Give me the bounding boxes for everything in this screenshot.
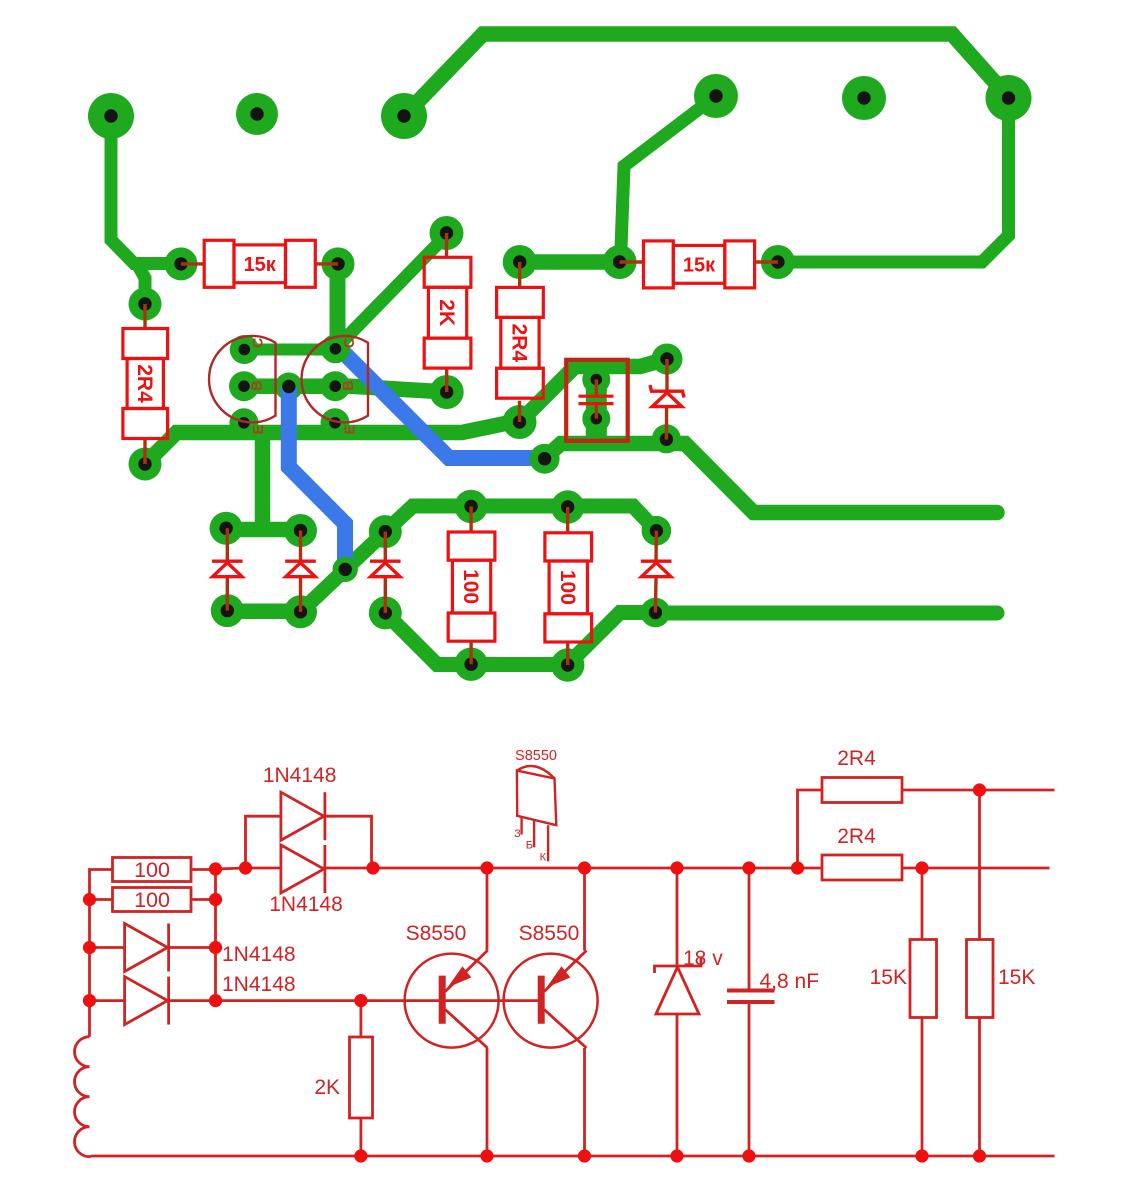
- resistor R10 2K box: [350, 1037, 373, 1118]
- wire Q1 collector: [486, 868, 489, 951]
- wire from 2R4b bottom pad diagonal up to zener top trace: [520, 359, 668, 422]
- pad E: [694, 74, 738, 118]
- pad 2R4b bottom: [503, 405, 537, 439]
- lead 2R4b top: [518, 262, 521, 287]
- wire 2K bottom: [359, 1118, 362, 1156]
- lead diode D3 bottom: [384, 577, 387, 613]
- lead 2K bottom: [445, 368, 448, 392]
- label 1N4148 below pair: [269, 893, 343, 916]
- wire top bus from pad C over to pad D: [404, 34, 1008, 116]
- label 4,8 nF: [760, 970, 820, 993]
- lead node F to 15k R2: [620, 260, 644, 263]
- lead diode D1 bottom: [226, 577, 229, 611]
- wire from diode D4 bottom pad to right edge: [655, 606, 997, 621]
- pad Q1 base: [229, 371, 259, 401]
- svg-text:15K: 15K: [870, 966, 907, 989]
- inductor L1 coil: [75, 1037, 91, 1157]
- pad Q1 collector: [230, 335, 259, 364]
- lead diode D4 bottom: [654, 578, 658, 613]
- wire Q2 collector: [583, 868, 586, 951]
- wire diode D1 D2 bottom pads row: [227, 603, 300, 619]
- svg-text:С: С: [251, 337, 267, 348]
- letter B of Q2: [341, 380, 357, 390]
- pad Q2 emitter: [321, 408, 350, 437]
- resistor R5 2R4: [497, 287, 544, 398]
- wire bottom bus net GND: [91, 1155, 1055, 1158]
- diode D7 1N4148: [125, 977, 169, 1025]
- letter E of Q2: [343, 424, 359, 434]
- svg-text:4,8 nF: 4,8 nF: [760, 970, 820, 993]
- label S8550 Q1: [406, 922, 467, 945]
- svg-text:100: 100: [134, 888, 170, 912]
- pad diode D2 bottom: [284, 595, 317, 628]
- wire from pad D down to 15k resistor R2 right pad: [778, 98, 1009, 262]
- svg-text:В: В: [341, 380, 357, 390]
- wire capacitor vertical pour: [586, 366, 607, 446]
- pad B isolated: [236, 93, 278, 135]
- wire collector line C of transistors Q1 Q2: [244, 344, 340, 356]
- wire from blue-wire end node up to diode D3 top pad: [345, 532, 385, 570]
- svg-text:2R4: 2R4: [837, 747, 876, 770]
- svg-text:2R4: 2R4: [507, 324, 530, 363]
- svg-text:100: 100: [134, 858, 170, 882]
- svg-text:2R4: 2R4: [837, 825, 876, 848]
- transistor package S8550 TO-92: [517, 766, 556, 861]
- transistor Q2 S8550: [504, 951, 598, 1049]
- svg-text:2R4: 2R4: [133, 364, 156, 403]
- wire Q2 emitter: [583, 1048, 586, 1156]
- lead diode D1 top: [226, 528, 229, 561]
- wire node F to resistor 2R4b top pad: [520, 254, 620, 270]
- pad Q2 collector: [321, 334, 350, 363]
- wire diagonal from collector junction to resistor 2K top pad: [339, 235, 447, 345]
- pad capacitor C1 top: [582, 366, 610, 394]
- wire 100a right lead: [191, 868, 216, 871]
- lead diode D3 top: [384, 532, 387, 561]
- label 1N4148 d6: [222, 943, 296, 966]
- pad diode D1 bottom: [211, 594, 244, 627]
- pad node F: [603, 245, 637, 279]
- wire top bus net VCC: [216, 868, 1050, 869]
- lead diode D4 top: [654, 531, 658, 562]
- diode D6 1N4148: [125, 924, 169, 972]
- pad 2R4b top: [503, 245, 537, 279]
- pad 2R4a bottom: [129, 448, 162, 481]
- lead cap C1 top: [595, 380, 598, 397]
- lead 2R4a top: [143, 304, 146, 329]
- lead zener D5 top: [665, 359, 668, 391]
- wire diode pair branch: [246, 816, 372, 868]
- diode D10 1N4148: [281, 792, 325, 840]
- transistor Q2 outline: [302, 336, 368, 422]
- lead cap C1 bottom: [595, 404, 598, 419]
- svg-text:S8550: S8550: [406, 922, 467, 945]
- svg-text:S8550: S8550: [515, 748, 557, 764]
- pad diode D3 bottom: [369, 596, 402, 629]
- zener diode D12 18v: [655, 868, 702, 1156]
- resistor R4 2K: [424, 257, 471, 368]
- resistor R12 2R4 bottom box: [822, 855, 902, 880]
- pad 100a top: [454, 490, 487, 523]
- pad 100a bottom: [454, 648, 487, 681]
- pad zener D5 top: [652, 344, 683, 375]
- resistor R3 2R4: [123, 329, 168, 439]
- label 2R4 bottom: [837, 825, 876, 848]
- diode D4: [641, 561, 672, 577]
- pad diode D2 top: [284, 514, 317, 547]
- lead 2K top: [445, 233, 448, 257]
- label pin B: [526, 840, 533, 852]
- pad 2K top: [430, 216, 464, 250]
- letter C of Q1: [251, 337, 267, 348]
- wire vertical from emitter line down to diode row: [255, 432, 271, 530]
- pad 100b top: [551, 490, 584, 523]
- wire branch down to resistor 2R4 top pad: [136, 262, 145, 304]
- wire from D3 bottom pad to resistors 100 bottom row: [385, 613, 655, 665]
- blue wire 1 from base node to lower junction: [289, 387, 345, 570]
- label 2R4 top: [837, 747, 876, 770]
- pad drill dots: [104, 89, 1015, 671]
- lead zener D5 bottom: [665, 407, 669, 440]
- transistor Q1 outline: [209, 336, 275, 422]
- pad D top-right: [986, 75, 1032, 121]
- pad base node between Q1 Q2: [275, 373, 303, 401]
- diode D11 1N4148: [281, 845, 325, 893]
- svg-text:2K: 2K: [435, 299, 458, 326]
- pad 15k R1 right: [322, 247, 355, 280]
- transistor Q1 S8550: [405, 951, 499, 1049]
- wire junction redraw over blue: [318, 295, 384, 350]
- wire left rail: [90, 870, 113, 1037]
- resistor R7 100: [545, 533, 592, 642]
- label 18 v: [683, 947, 723, 970]
- svg-text:Е: Е: [343, 424, 359, 434]
- wire 2K top: [359, 1001, 362, 1037]
- resistor R2 15k: [644, 241, 755, 288]
- label 1N4148 d7: [222, 973, 296, 996]
- wire emitter line E of transistors Q1 Q2: [145, 422, 520, 464]
- capacitor C2 4.8nF: [727, 868, 775, 1156]
- pad 2K bottom: [430, 375, 464, 409]
- pad redraw at blue wire 1 end: [333, 557, 358, 582]
- label pin K: [540, 852, 547, 864]
- pad node at blue wire 1 end: [333, 557, 358, 582]
- lead 15k R1 right: [315, 262, 338, 265]
- wire net from blue-wire pad through zener bottom pad to right edge: [546, 444, 997, 513]
- svg-text:В: В: [250, 380, 266, 390]
- lead 15k R2 right: [755, 260, 778, 263]
- capacitor C1 block outline: [566, 360, 628, 441]
- wire Q1 emitter: [486, 1048, 489, 1156]
- pad 15k R1 left: [165, 247, 198, 280]
- wire base line B of transistors Q1 Q2 to 2K bottom pad: [244, 386, 447, 392]
- pad zener D5 bottom: [652, 424, 681, 453]
- svg-text:З: З: [514, 828, 521, 840]
- svg-text:100: 100: [459, 569, 482, 604]
- pad diode D4 bottom: [641, 598, 671, 628]
- svg-text:15K: 15K: [998, 966, 1035, 989]
- letter E of Q1: [251, 424, 267, 434]
- wire diode D1 D2 top pads row: [226, 522, 300, 538]
- label 2K: [314, 1076, 340, 1099]
- lead diode D2 bottom: [299, 577, 302, 612]
- wire base line net: [90, 999, 542, 1002]
- pad G isolated: [842, 76, 886, 120]
- svg-text:15к: 15к: [683, 254, 716, 276]
- svg-text:Б: Б: [526, 840, 533, 852]
- svg-text:1N4148: 1N4148: [222, 943, 296, 966]
- pad Q2 base: [320, 371, 350, 401]
- svg-text:S8550: S8550: [519, 922, 580, 945]
- pad A top-left: [88, 93, 134, 139]
- svg-text:Е: Е: [251, 424, 267, 434]
- label pin Z: [514, 828, 521, 840]
- wire vertical junction rail x215: [214, 869, 217, 1001]
- pad capacitor C1 bottom: [582, 405, 610, 433]
- lead 2R4b bottom: [518, 401, 521, 422]
- pad 15k R2 right: [761, 245, 795, 279]
- wire from pad A to 15k resistor R1 left pad: [111, 116, 181, 264]
- pad 2R4a top: [129, 288, 162, 321]
- wire 15k R1 right pad down to collector line: [330, 264, 346, 348]
- svg-text:15к: 15к: [244, 254, 277, 276]
- lead 100b bottom: [566, 642, 569, 665]
- lead 100a top: [469, 506, 472, 532]
- pad Q1 emitter: [229, 408, 258, 437]
- label 1N4148 top: [263, 764, 337, 787]
- blue wire 2 from Q2 collector to mid-right pad: [337, 346, 545, 458]
- pad 100b bottom: [551, 648, 584, 681]
- resistor R6 100: [448, 532, 495, 641]
- svg-text:18 v: 18 v: [683, 947, 723, 970]
- svg-text:С: С: [342, 337, 358, 348]
- resistor R8 100 box: [113, 858, 192, 883]
- wire 100b leads: [90, 898, 216, 901]
- svg-text:К: К: [540, 852, 547, 864]
- pad at blue wire 2 end: [530, 444, 560, 474]
- lead 100b top: [566, 507, 569, 533]
- resistor R14 15K: [967, 790, 994, 1156]
- lead 2R4a bottom: [143, 439, 146, 465]
- resistor R9 100 box: [113, 888, 192, 913]
- pad diode D4 top: [642, 516, 672, 546]
- zener diode D5: [650, 385, 684, 407]
- pad diode D3 top: [369, 515, 402, 548]
- label 15K right: [998, 966, 1035, 989]
- wire diode row D6 line: [90, 946, 216, 949]
- letter B of Q1: [250, 380, 266, 390]
- wire from pad E diagonal to junction node F: [621, 96, 717, 262]
- lead 15k R1 left: [181, 262, 204, 265]
- svg-text:1N4148: 1N4148: [263, 764, 337, 787]
- label S8550 package: [515, 748, 557, 764]
- label S8550 Q2: [519, 922, 580, 945]
- diode D2: [285, 561, 316, 577]
- svg-text:100: 100: [556, 570, 579, 605]
- wire V junction from D2 bottom pad up to blue-wire end node: [301, 569, 346, 611]
- pad C: [381, 93, 427, 139]
- svg-text:2K: 2K: [314, 1076, 340, 1099]
- pad diode D1 top: [210, 512, 243, 545]
- wire from D3 top pad to resistors 100 top row: [385, 506, 656, 532]
- svg-text:1N4148: 1N4148: [222, 973, 296, 996]
- letter C of Q2: [342, 337, 358, 348]
- resistor R1 15k: [204, 240, 315, 287]
- lead 100a bottom: [469, 641, 472, 664]
- diode D1: [212, 561, 243, 577]
- diode D3: [370, 561, 401, 577]
- label 15K left: [870, 966, 907, 989]
- lead diode D2 top: [299, 531, 302, 562]
- svg-text:1N4148: 1N4148: [269, 893, 343, 916]
- resistor R13 15K: [910, 868, 937, 1156]
- resistor R11 2R4 top: [798, 778, 1055, 869]
